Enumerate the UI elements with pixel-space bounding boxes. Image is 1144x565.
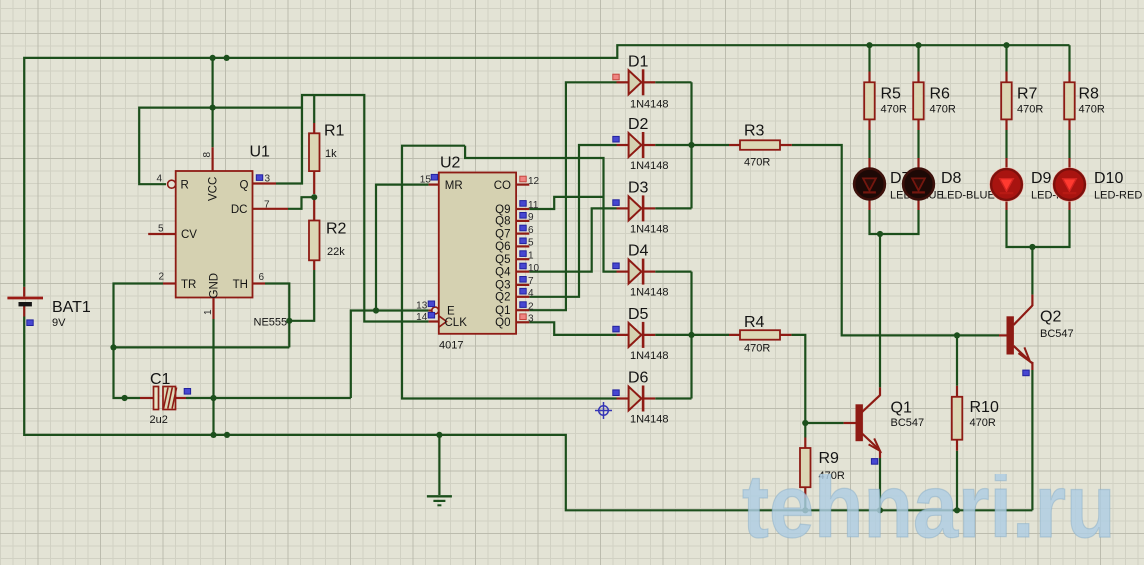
- svg-text:470R: 470R: [744, 157, 770, 169]
- svg-text:tehnari.ru: tehnari.ru: [742, 456, 1116, 557]
- svg-text:10: 10: [528, 263, 540, 274]
- svg-text:D5: D5: [628, 306, 649, 323]
- svg-text:3: 3: [528, 314, 534, 325]
- svg-text:470R: 470R: [970, 417, 996, 429]
- svg-text:7: 7: [528, 276, 534, 287]
- svg-text:U2: U2: [440, 155, 461, 172]
- svg-text:VCC: VCC: [208, 177, 220, 201]
- svg-text:R10: R10: [970, 399, 999, 416]
- svg-text:CV: CV: [181, 229, 197, 241]
- svg-text:TH: TH: [233, 279, 248, 291]
- svg-text:Q4: Q4: [495, 266, 511, 278]
- svg-text:1N4148: 1N4148: [630, 350, 669, 362]
- svg-text:4: 4: [528, 288, 534, 299]
- svg-text:LED-RED: LED-RED: [1094, 190, 1142, 202]
- svg-text:R7: R7: [1017, 86, 1038, 103]
- svg-text:22k: 22k: [327, 246, 345, 258]
- svg-text:11: 11: [528, 200, 539, 211]
- svg-text:BC547: BC547: [1040, 328, 1074, 340]
- svg-text:13: 13: [416, 300, 428, 311]
- svg-text:1: 1: [528, 250, 534, 261]
- svg-text:6: 6: [259, 272, 265, 283]
- svg-text:R5: R5: [881, 86, 902, 103]
- svg-text:CLK: CLK: [445, 317, 468, 329]
- svg-text:1N4148: 1N4148: [630, 287, 669, 299]
- svg-text:12: 12: [528, 176, 540, 187]
- svg-text:1N4148: 1N4148: [630, 98, 669, 110]
- svg-text:D9: D9: [1031, 170, 1052, 187]
- svg-text:Q3: Q3: [495, 280, 510, 292]
- svg-text:2: 2: [159, 272, 165, 283]
- svg-text:Q5: Q5: [495, 254, 510, 266]
- svg-text:14: 14: [416, 312, 428, 323]
- svg-text:D1: D1: [628, 53, 649, 70]
- svg-text:3: 3: [265, 174, 271, 185]
- svg-text:TR: TR: [181, 279, 196, 291]
- svg-text:GND: GND: [209, 273, 221, 299]
- svg-text:8: 8: [202, 152, 213, 158]
- svg-text:7: 7: [264, 200, 270, 211]
- svg-text:6: 6: [528, 225, 534, 236]
- svg-text:2u2: 2u2: [150, 414, 168, 426]
- svg-text:1N4148: 1N4148: [630, 160, 669, 172]
- svg-text:BAT1: BAT1: [52, 299, 91, 316]
- svg-text:R2: R2: [326, 221, 347, 238]
- svg-text:R6: R6: [930, 86, 951, 103]
- svg-text:D2: D2: [628, 116, 649, 133]
- svg-text:1N4148: 1N4148: [630, 223, 669, 235]
- svg-text:Q2: Q2: [1040, 309, 1061, 326]
- svg-text:4017: 4017: [439, 340, 463, 352]
- svg-text:CO: CO: [494, 180, 511, 192]
- svg-text:Q1: Q1: [891, 400, 912, 417]
- svg-text:D4: D4: [628, 243, 649, 260]
- svg-text:5: 5: [528, 238, 534, 249]
- svg-text:U1: U1: [250, 144, 271, 161]
- svg-text:R8: R8: [1079, 86, 1100, 103]
- svg-text:BC547: BC547: [891, 417, 925, 429]
- svg-text:D6: D6: [628, 370, 649, 387]
- svg-text:1: 1: [203, 309, 214, 315]
- svg-text:1N4148: 1N4148: [630, 414, 669, 426]
- svg-text:15: 15: [420, 175, 432, 186]
- svg-text:470R: 470R: [1079, 104, 1105, 116]
- svg-text:470R: 470R: [881, 104, 907, 116]
- svg-text:470R: 470R: [1017, 104, 1043, 116]
- svg-text:D3: D3: [628, 179, 649, 196]
- svg-text:LED-BLUE: LED-BLUE: [941, 190, 995, 202]
- svg-text:1k: 1k: [325, 148, 337, 160]
- svg-text:Q9: Q9: [495, 204, 510, 216]
- svg-text:470R: 470R: [930, 104, 956, 116]
- svg-text:9: 9: [528, 212, 534, 223]
- svg-text:R1: R1: [324, 123, 345, 140]
- svg-text:4: 4: [157, 174, 163, 185]
- svg-text:D10: D10: [1094, 170, 1123, 187]
- svg-text:Q0: Q0: [495, 317, 510, 329]
- svg-text:D8: D8: [941, 170, 962, 187]
- svg-text:Q: Q: [240, 179, 249, 191]
- svg-text:DC: DC: [231, 204, 248, 216]
- svg-text:Q6: Q6: [495, 241, 510, 253]
- svg-text:R: R: [181, 179, 189, 191]
- svg-text:470R: 470R: [744, 343, 770, 355]
- svg-text:R4: R4: [744, 314, 765, 331]
- svg-text:2: 2: [528, 301, 534, 312]
- svg-text:C1: C1: [150, 371, 171, 388]
- svg-text:5: 5: [158, 224, 164, 235]
- svg-text:E: E: [447, 305, 455, 317]
- svg-text:R9: R9: [819, 450, 840, 467]
- svg-text:NE555: NE555: [254, 317, 288, 329]
- svg-text:Q2: Q2: [495, 292, 510, 304]
- svg-text:Q1: Q1: [495, 305, 510, 317]
- svg-text:MR: MR: [445, 180, 463, 192]
- svg-text:Q8: Q8: [495, 216, 510, 228]
- svg-text:9V: 9V: [52, 317, 66, 329]
- svg-text:Q7: Q7: [495, 228, 510, 240]
- svg-text:R3: R3: [744, 123, 765, 140]
